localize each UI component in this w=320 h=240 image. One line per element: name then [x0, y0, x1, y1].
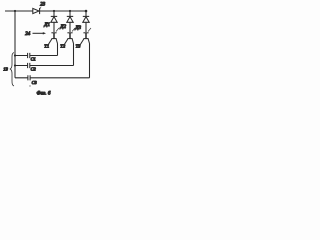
label D1	[43, 23, 50, 28]
wire: T2 emitter to C2 row	[73, 44, 75, 66]
wire: C3 row	[15, 77, 90, 79]
transistor T1	[48, 28, 59, 45]
wire: T1 emitter to C1 row	[57, 44, 59, 56]
svg-text:Д1: Д1	[43, 23, 50, 28]
label T1	[44, 44, 49, 49]
transistor T2	[64, 28, 75, 45]
junction: rail / column 3	[85, 10, 88, 13]
wire: left vertical bus	[14, 11, 16, 78]
caption Fig. 6	[37, 91, 51, 97]
label T2	[60, 44, 66, 49]
svg-text:Д3: Д3	[74, 26, 81, 31]
junction: left bus / C1 row	[14, 54, 16, 56]
diode 23 (series diode in top rail)	[33, 8, 40, 14]
label C3	[32, 80, 38, 85]
svg-text:С1: С1	[31, 56, 36, 61]
transistor T3	[80, 28, 91, 45]
label C2	[31, 66, 37, 71]
label C1	[31, 56, 36, 61]
capacitor C2	[28, 63, 30, 68]
label D2	[59, 25, 66, 30]
label 23	[39, 3, 45, 10]
label 13 (node 13)	[3, 66, 8, 71]
diode D2	[67, 16, 73, 22]
brace grouping capacitor inputs	[10, 53, 14, 87]
svg-text:С3: С3	[32, 80, 38, 85]
svg-text:С2: С2	[31, 66, 37, 71]
svg-text:13: 13	[3, 66, 8, 71]
diode D3	[83, 16, 89, 22]
wire: column 2 drop	[69, 11, 71, 32]
junction: rail / left bus	[14, 10, 16, 12]
svg-text:Т3: Т3	[76, 44, 82, 49]
junction: rail / column 1	[53, 10, 55, 12]
speck artifact	[29, 85, 30, 86]
wire: T3 emitter to C3 row	[89, 44, 91, 78]
label D3	[74, 26, 81, 31]
diode D1	[51, 16, 57, 22]
capacitor C1	[28, 53, 30, 58]
svg-text:Т2: Т2	[60, 44, 66, 49]
junction: rail / column 2	[69, 10, 71, 12]
svg-text:Д2: Д2	[59, 25, 66, 30]
wire: C1 row	[15, 55, 58, 57]
svg-text:Фиг. 6: Фиг. 6	[37, 91, 51, 97]
svg-text:Т1: Т1	[44, 44, 49, 49]
wire: top supply rail	[5, 10, 87, 12]
wire: C2 row	[15, 65, 74, 67]
svg-text:24: 24	[25, 32, 30, 37]
label 24 with arrow pointing to T1	[25, 32, 46, 37]
label T3	[76, 44, 82, 49]
junction: left bus / C2 row	[14, 64, 16, 66]
capacitor C3	[28, 75, 30, 80]
wire: column 1 drop	[53, 11, 55, 32]
wire: column 3 drop	[85, 11, 87, 32]
